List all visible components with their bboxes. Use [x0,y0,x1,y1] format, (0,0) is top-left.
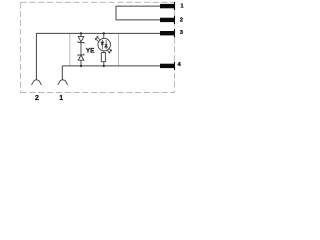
LED chip left (cathode down) [101,40,104,49]
junction node resistor/bottom wire [103,65,105,67]
junction node zener/top wire [80,32,82,34]
pin 2 contact [160,16,175,24]
pin 4 contact [160,62,175,70]
wire pin3 to left corner [36,32,160,34]
svg-text:2: 2 [180,18,183,24]
wire drop to socket 1 [61,66,63,80]
pin 1 contact [160,2,175,10]
junction node LED/top wire [103,32,105,34]
resistor R1 [101,53,105,66]
svg-text:YE: YE [86,48,94,55]
svg-text:1: 1 [59,95,63,102]
wire bridge pins 1-2 [115,6,117,20]
svg-text:4: 4 [178,62,182,68]
wire pin2 stub [116,19,161,21]
wire bottom bus to pin4 [62,65,160,67]
junction node zener/bottom wire [80,65,82,67]
wire pin1 stub [116,5,161,7]
socket contact 2 [32,80,42,85]
housing outline left side [69,33,71,66]
pin 3 contact [160,29,175,37]
zener diode V2 [78,54,84,66]
wire left drop to socket 2 [35,33,37,79]
zener diode V1 [78,33,84,55]
LED rays upper-left [95,37,100,42]
svg-text:2: 2 [35,95,39,102]
LED chip right (cathode up) [105,40,108,49]
LED rays lower-right [107,48,112,53]
dashed drawing frame [21,2,175,92]
housing outline right side [118,33,120,66]
svg-text:1: 1 [180,4,184,10]
socket contact 1 [58,80,68,85]
LED U1 (bidirectional, yellow) [98,33,111,52]
svg-text:3: 3 [180,30,184,36]
